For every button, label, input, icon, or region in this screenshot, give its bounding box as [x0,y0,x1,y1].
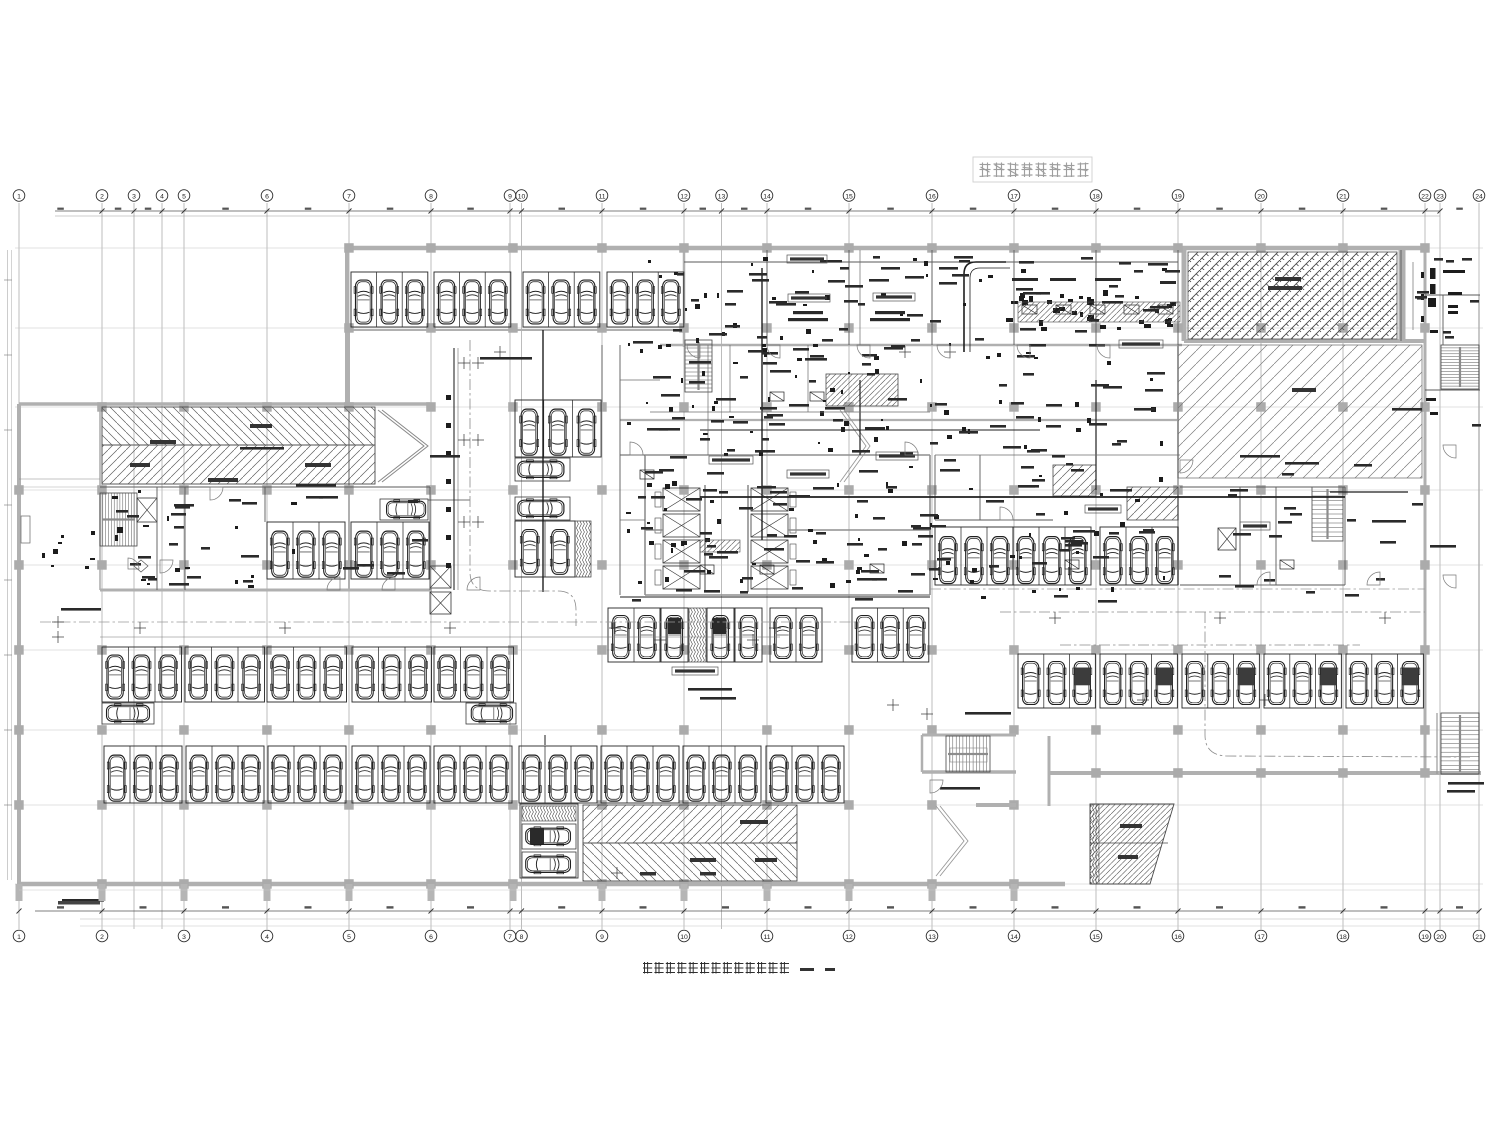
chevron door mid [840,410,870,482]
shaft right center [1218,528,1236,550]
crosshatch block top right [1188,252,1397,339]
left wing partition line [19,478,100,480]
plant room partitions [100,250,1480,595]
svg-text:12: 12 [680,193,688,200]
small hatch rooms right center [1053,465,1096,496]
small room left wall [21,516,30,543]
svg-text:15: 15 [1092,934,1100,941]
zigzag hatch panel [575,521,591,577]
parking row A (top) [351,272,428,327]
bottom dimension line [17,906,1482,926]
svg-text:12: 12 [845,934,853,941]
equipment symbols central plant [42,257,1465,599]
svg-text:6: 6 [429,934,433,941]
svg-text:21: 21 [1339,193,1347,200]
middle island parking [608,608,660,662]
grid bubbles top [13,190,1485,202]
elevator bank left [663,488,700,511]
svg-text:8: 8 [429,193,433,200]
svg-text:2: 2 [100,193,104,200]
svg-text:7: 7 [347,193,351,200]
svg-text:21: 21 [1475,934,1483,941]
svg-text:3: 3 [132,193,136,200]
svg-text:20: 20 [1436,934,1444,941]
stair left wing [100,493,137,546]
svg-text:16: 16 [1174,934,1182,941]
parking row right of core [935,527,1013,585]
parking row B left [102,647,182,702]
svg-text:4: 4 [160,193,164,200]
accessible stall row B [102,703,154,724]
svg-text:18: 18 [1339,934,1347,941]
chevron door bottom center [936,806,968,876]
svg-text:20: 20 [1257,193,1265,200]
faint line below bottom wall [19,889,1480,891]
diagonal hatch region right [1178,345,1422,478]
ramp hatch left [102,407,375,484]
grid bubbles bottom [13,930,1485,942]
main ducts [543,262,1413,745]
svg-text:23: 23 [1436,193,1444,200]
svg-text:3: 3 [182,934,186,941]
svg-text:8: 8 [520,934,524,941]
top dimension line [55,208,1463,216]
sheet title box (top) [973,157,1092,182]
chevron door right of ramp [378,410,428,482]
svg-text:9: 9 [600,934,604,941]
drive aisle centerlines [40,340,1470,757]
small hatch block central [826,374,898,406]
stair bottom right [1441,713,1479,774]
duct vertical x455 [453,348,455,590]
svg-text:17: 17 [1257,934,1265,941]
svg-text:5: 5 [182,193,186,200]
svg-text:18: 18 [1092,193,1100,200]
boxed equipment labels [672,255,1270,675]
parking row C [104,746,182,803]
svg-text:7: 7 [508,934,512,941]
stair right edge [1441,345,1479,389]
svg-text:4: 4 [265,934,269,941]
bottom left note [58,901,100,905]
stair central top [685,340,712,392]
mid vertical parking cluster [515,400,601,457]
svg-text:17: 17 [1010,193,1018,200]
svg-text:11: 11 [763,934,770,941]
core lobby walls [645,455,930,595]
svg-text:24: 24 [1475,193,1483,200]
svg-text:10: 10 [680,934,688,941]
parking row bottom right [1018,654,1095,708]
svg-text:5: 5 [347,934,351,941]
stair right center [1312,487,1343,541]
door swing arcs [160,345,1456,793]
svg-text:1: 1 [17,193,21,200]
column stubs below bottom wall [16,884,1018,901]
svg-text:11: 11 [598,193,605,200]
room center labels [788,278,1176,321]
left wing door arc [128,558,139,569]
elevator left wing [137,498,157,522]
bottom middle ramp hatch [583,805,797,881]
svg-text:15: 15 [845,193,853,200]
site grid horizontal lines [15,248,1483,884]
shafts mid-left [430,566,451,588]
elevator bank right [751,488,788,511]
site grid vertical lines [19,203,1479,929]
internal dimension marks [52,346,1391,879]
drawing title (bottom) [643,962,789,974]
svg-text:19: 19 [1174,193,1182,200]
wall stub near mid cluster [428,499,470,501]
accessible stalls bottom middle [520,804,578,878]
svg-text:1: 1 [17,934,21,941]
left edge dimension line [4,250,12,880]
svg-text:22: 22 [1421,193,1429,200]
extra partition walls central [620,250,1180,520]
stair hall walls bottom center [922,735,1016,805]
svg-text:6: 6 [265,193,269,200]
single stall row B right [466,703,516,724]
svg-text:16: 16 [928,193,936,200]
svg-text:9: 9 [508,193,512,200]
stair bottom center [946,736,990,772]
svg-text:13: 13 [928,934,936,941]
structural columns [14,243,1430,889]
building walls [19,248,1481,884]
svg-text:14: 14 [763,193,771,200]
single stall left wing [380,499,428,520]
svg-text:19: 19 [1421,934,1429,941]
greeked small labels [61,256,1484,902]
svg-text:14: 14 [1010,934,1018,941]
AHU units row [640,305,1294,574]
svg-text:2: 2 [100,934,104,941]
svg-text:10: 10 [518,193,526,200]
svg-text:13: 13 [718,193,726,200]
hatch strips plant rooms [1018,302,1180,322]
bottom right ramp trapezoid [1090,804,1174,884]
parking row left wing [267,522,345,579]
